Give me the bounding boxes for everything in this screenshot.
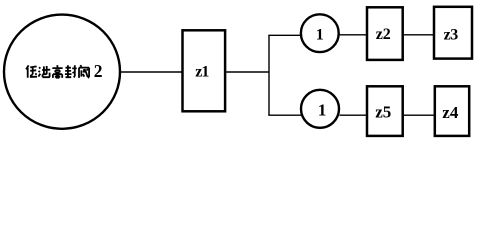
label 低泄高封阀 2 (drawn glyphs) [26,65,89,78]
block z1 [183,30,226,111]
wire branch to top circle [268,34,301,36]
wire branch to bottom circle [268,114,302,116]
阀 [79,65,89,78]
block z3 [434,7,472,59]
block z2 [367,7,403,60]
svg-text:z4: z4 [442,103,459,122]
operator circle 1 (bottom) [301,90,339,128]
wire z5 to z4 [403,114,435,116]
低 [26,65,37,77]
block z5 [367,86,403,136]
wire top circle to z2 [339,34,367,36]
wire circle to z1 [120,71,182,73]
svg-text:z1: z1 [195,63,209,80]
svg-text:z2: z2 [376,26,391,43]
svg-text:1: 1 [318,100,327,119]
branch vertical wire [268,35,270,115]
wire bottom circle to z5 [340,114,368,116]
泄 [38,66,50,77]
svg-text:2: 2 [94,61,103,81]
operator circle 1 (top) [301,14,339,52]
wire z1 to branch [226,71,269,73]
svg-text:z5: z5 [375,103,391,122]
svg-text:z3: z3 [444,27,459,44]
高 [52,65,62,78]
top event circle: 低泄高封阀 2 [4,15,120,129]
wire z2 to z3 [403,34,434,36]
封 [65,65,77,77]
svg-text:1: 1 [316,26,324,43]
block z4 [435,86,469,136]
